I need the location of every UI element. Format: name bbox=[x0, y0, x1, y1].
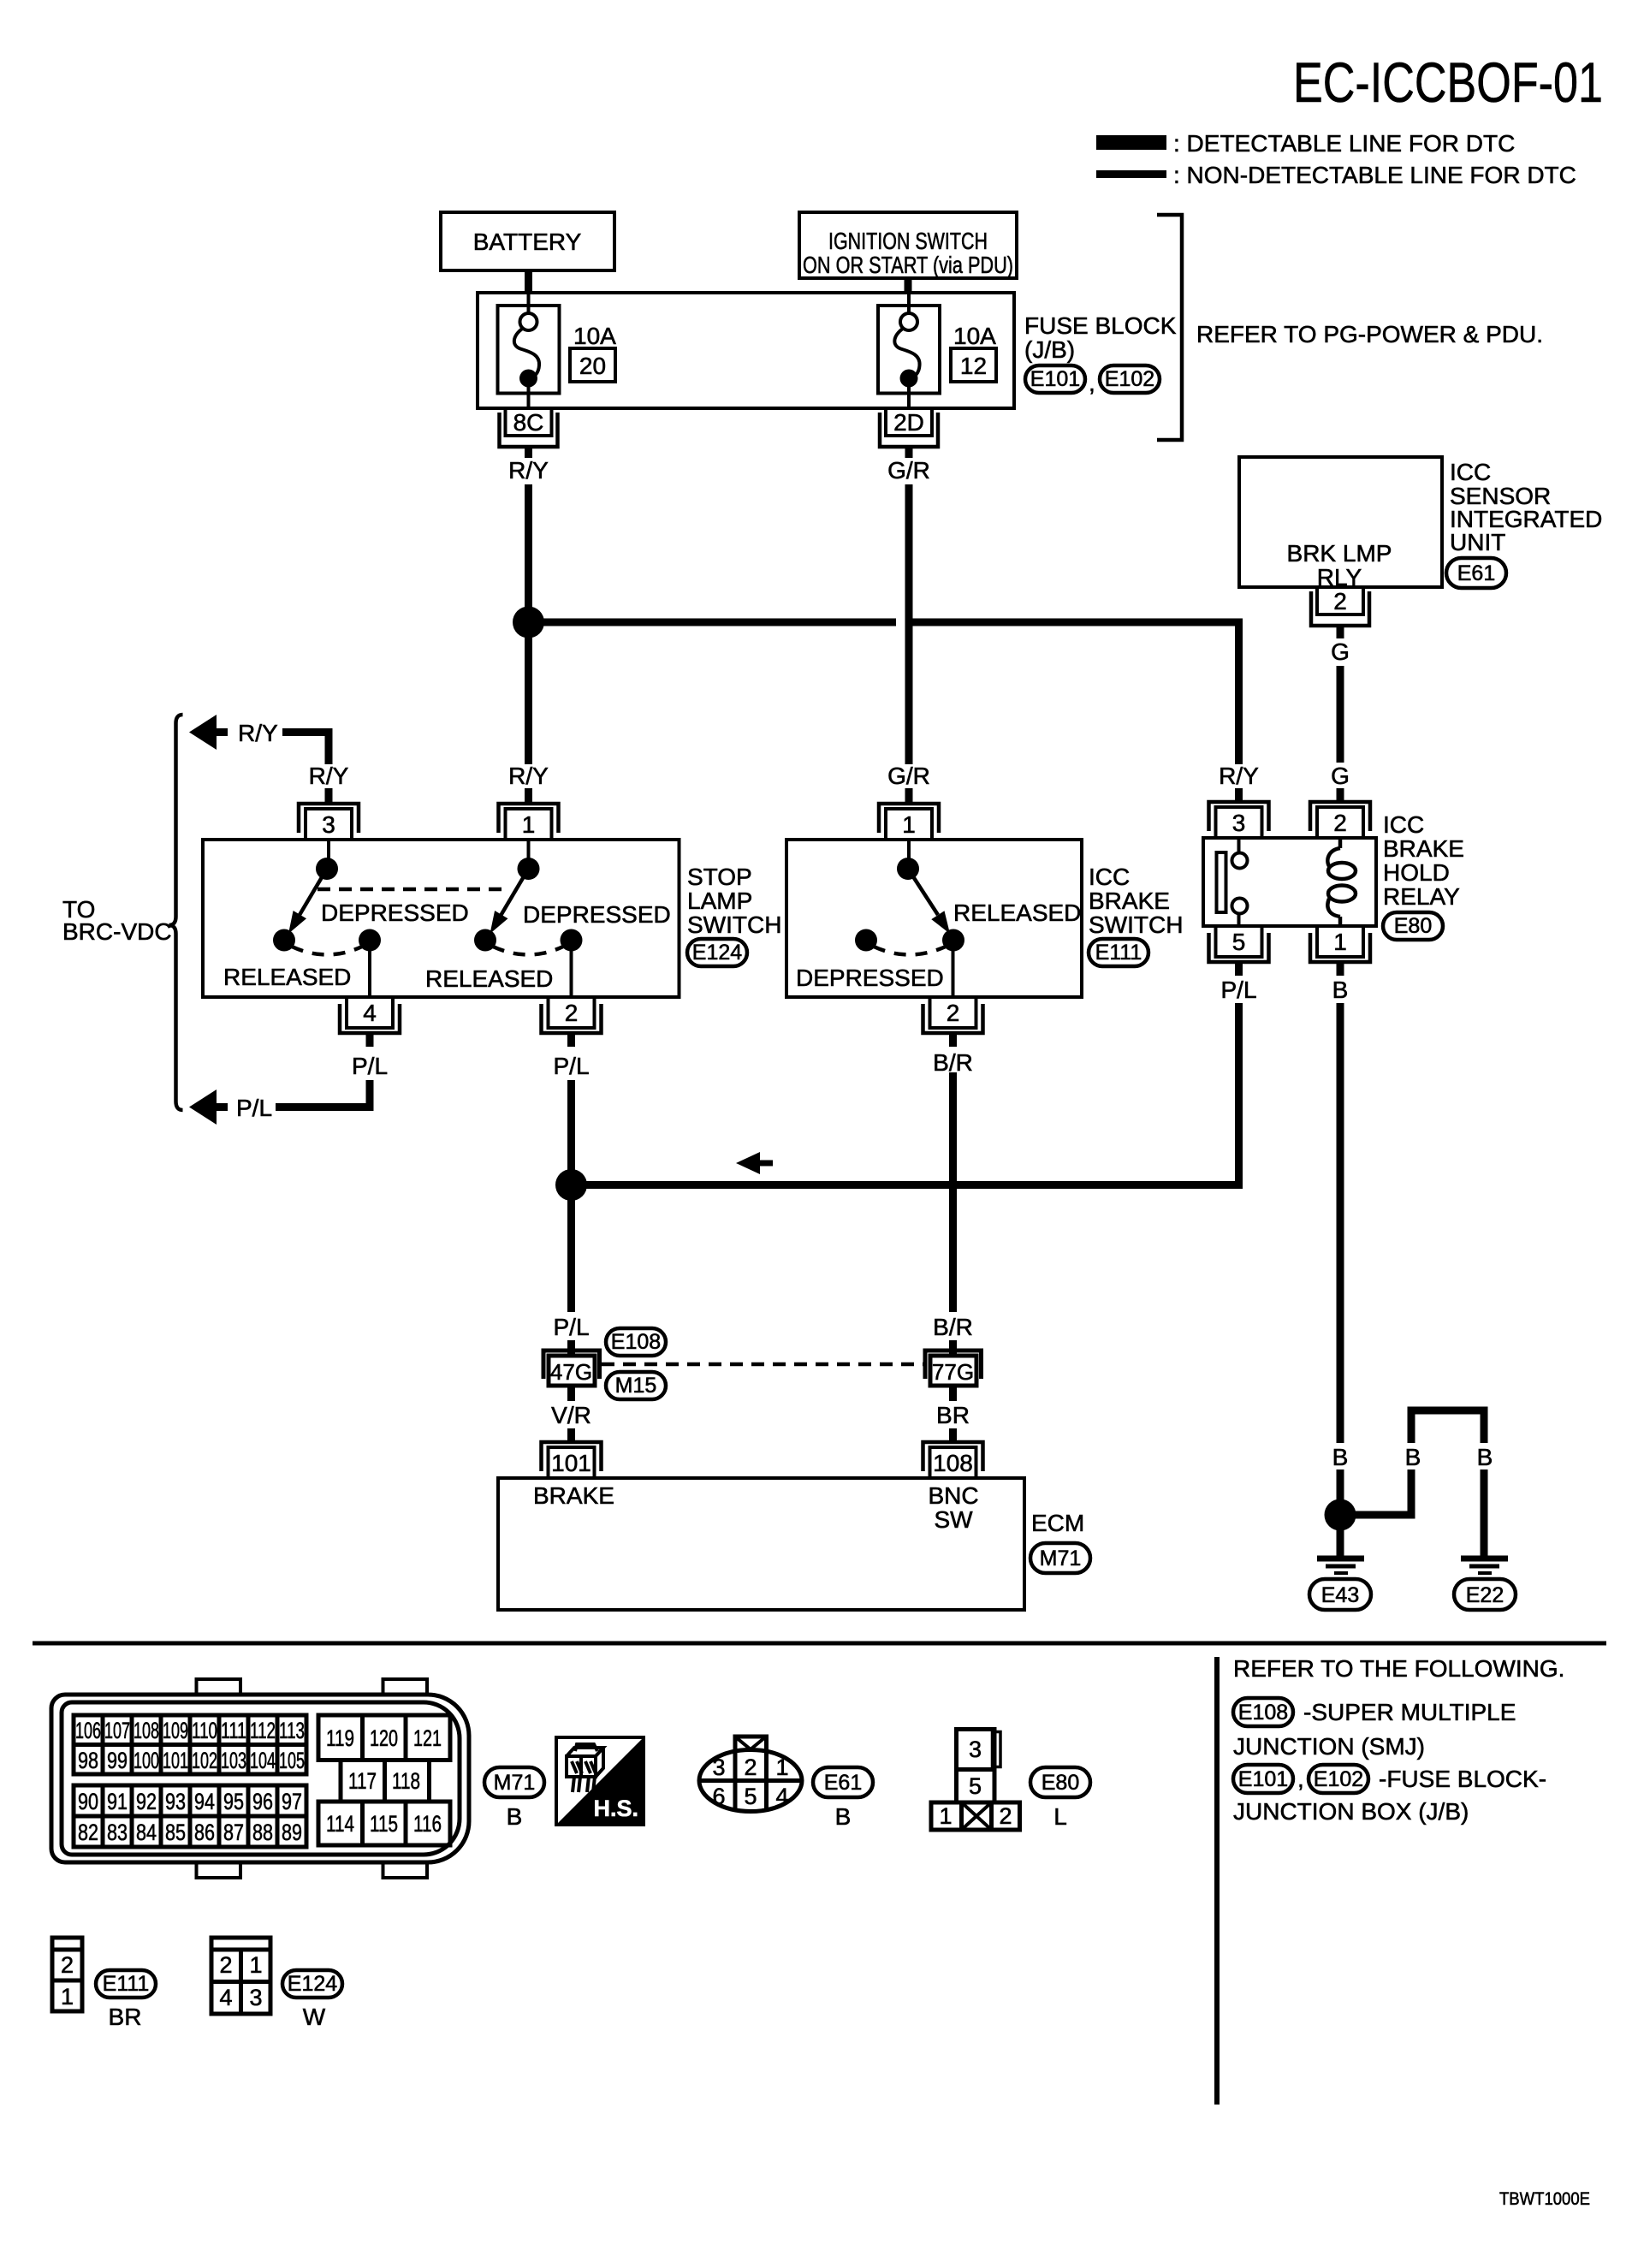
svg-text:3: 3 bbox=[1232, 810, 1246, 836]
svg-text:REFER TO PG-POWER & PDU.: REFER TO PG-POWER & PDU. bbox=[1196, 321, 1543, 347]
connector oval E124 (bottom) bbox=[282, 1970, 342, 1998]
connector 2 below BRK LMP RLY bbox=[1311, 587, 1369, 638]
svg-text:84: 84 bbox=[136, 1820, 157, 1845]
svg-text:B: B bbox=[1477, 1444, 1493, 1470]
wire from right released contact to conn 2 bbox=[570, 941, 573, 996]
connector oval E111 (bottom) bbox=[96, 1970, 156, 1998]
svg-text:82: 82 bbox=[78, 1820, 98, 1845]
svg-text:101: 101 bbox=[163, 1748, 188, 1773]
junction node (B splice) bbox=[1325, 1499, 1356, 1531]
svg-text:-FUSE BLOCK-: -FUSE BLOCK- bbox=[1379, 1766, 1546, 1792]
svg-text:10A: 10A bbox=[953, 323, 996, 349]
wire R/Y branch horizontal to relay column (gap at G/R crossing) bbox=[529, 619, 897, 626]
svg-text:E80: E80 bbox=[1394, 914, 1432, 938]
svg-text:G/R: G/R bbox=[887, 763, 930, 789]
legend detectable line sample bbox=[1096, 135, 1166, 150]
wire R/Y from 8C to junction bbox=[525, 484, 532, 622]
svg-text:102: 102 bbox=[192, 1748, 217, 1773]
arrow to BRC-VDC (R/Y) bbox=[189, 715, 329, 764]
svg-text:P/L: P/L bbox=[553, 1314, 589, 1340]
connector oval E108 bbox=[606, 1328, 666, 1356]
svg-text:108: 108 bbox=[933, 1450, 973, 1476]
svg-text:W: W bbox=[303, 2004, 326, 2030]
svg-text:BR: BR bbox=[936, 1402, 970, 1428]
svg-text:P/L: P/L bbox=[553, 1053, 589, 1079]
svg-text:77G: 77G bbox=[932, 1359, 974, 1385]
wire G/R from 2D down to ICC brake switch bbox=[905, 484, 913, 764]
left released contact bbox=[359, 929, 381, 952]
ICC released contact bbox=[942, 929, 964, 952]
connector 2 (relay) bbox=[1310, 802, 1370, 838]
svg-text:108: 108 bbox=[134, 1718, 159, 1743]
svg-text:2: 2 bbox=[999, 1803, 1012, 1829]
svg-text:109: 109 bbox=[163, 1718, 188, 1743]
connector 5 (relay) bbox=[1209, 926, 1269, 976]
svg-text:E111: E111 bbox=[1095, 941, 1142, 965]
svg-text:-SUPER MULTIPLE: -SUPER MULTIPLE bbox=[1303, 1699, 1516, 1725]
connector 2 (stop lamp switch) bbox=[542, 997, 602, 1047]
fuse 10A 12 (right) bbox=[878, 293, 996, 408]
svg-text:1: 1 bbox=[939, 1803, 952, 1829]
connector oval E80 (relay) bbox=[1383, 912, 1443, 940]
wire conn4 P/L down and left to arrow bbox=[276, 1080, 370, 1107]
svg-text:2: 2 bbox=[61, 1952, 74, 1978]
svg-text:12: 12 bbox=[960, 353, 987, 379]
wire B/R crossing down bbox=[949, 1072, 957, 1312]
right depressed contact bbox=[474, 929, 496, 952]
connector 3 (relay) bbox=[1209, 802, 1269, 838]
SMJ connector 77G bbox=[925, 1340, 982, 1401]
inner shell bbox=[62, 1702, 460, 1855]
oval connector E61 face bbox=[699, 1737, 802, 1812]
ICC dashed throw arc bbox=[874, 947, 946, 955]
svg-text:ICC: ICC bbox=[1089, 864, 1130, 890]
ECM connector M71 face bbox=[51, 1679, 469, 1878]
pin grid upper-left rows 106-113 / 98-105 bbox=[74, 1715, 306, 1774]
svg-text:R/Y: R/Y bbox=[508, 763, 549, 789]
outer shell bbox=[51, 1695, 469, 1862]
wire P/L from stop lamp conn2 down to junction bbox=[567, 1080, 575, 1185]
svg-text:3: 3 bbox=[249, 1985, 262, 2010]
svg-text:8C: 8C bbox=[513, 409, 544, 436]
svg-text:1: 1 bbox=[1333, 929, 1347, 955]
svg-text:ICC: ICC bbox=[1450, 459, 1491, 485]
bracket right of fuse block bbox=[1157, 215, 1182, 440]
pin grid lower-left rows 90-97 / 82-89 bbox=[74, 1785, 306, 1847]
connector oval M71 (bottom) bbox=[484, 1767, 544, 1797]
svg-text:P/L: P/L bbox=[352, 1053, 388, 1079]
svg-text:115: 115 bbox=[370, 1811, 398, 1837]
connector oval E101 bbox=[1025, 365, 1085, 393]
connector 8C bbox=[500, 408, 558, 458]
svg-text:STOP: STOP bbox=[687, 864, 752, 890]
svg-text:TBWT1000E: TBWT1000E bbox=[1499, 2189, 1590, 2209]
svg-text:E102: E102 bbox=[1314, 1767, 1363, 1791]
left switch pole wire bbox=[327, 841, 330, 863]
fuse block J/B box bbox=[478, 293, 1014, 408]
svg-text:117: 117 bbox=[348, 1768, 377, 1794]
svg-text:,: , bbox=[1089, 370, 1095, 396]
svg-text:DEPRESSED: DEPRESSED bbox=[321, 899, 469, 926]
svg-text:10A: 10A bbox=[573, 323, 616, 349]
svg-text:BRK LMP: BRK LMP bbox=[1287, 540, 1392, 567]
svg-text:BNC: BNC bbox=[928, 1482, 978, 1509]
svg-text:96: 96 bbox=[252, 1789, 273, 1814]
wire B from relay down bbox=[1337, 1003, 1344, 1443]
svg-text:BRAKE: BRAKE bbox=[533, 1482, 614, 1509]
ECM box bbox=[498, 1478, 1024, 1610]
svg-text:103: 103 bbox=[221, 1748, 246, 1773]
svg-text:2: 2 bbox=[744, 1754, 757, 1780]
svg-text:110: 110 bbox=[192, 1718, 217, 1743]
svg-text:B: B bbox=[835, 1803, 852, 1830]
svg-text:47G: 47G bbox=[550, 1359, 592, 1385]
svg-text:E80: E80 bbox=[1042, 1771, 1079, 1795]
right switch common contact bbox=[518, 858, 540, 880]
ICC depressed contact bbox=[855, 929, 877, 952]
left switch common contact bbox=[316, 858, 338, 880]
battery box bbox=[441, 212, 614, 270]
ICC brake hold relay box bbox=[1203, 838, 1376, 926]
svg-text:106: 106 bbox=[75, 1718, 101, 1743]
svg-text:3: 3 bbox=[969, 1737, 982, 1762]
svg-text:FUSE BLOCK: FUSE BLOCK bbox=[1024, 312, 1177, 339]
wire battery to fuse block bbox=[525, 270, 532, 293]
svg-text:E61: E61 bbox=[824, 1771, 862, 1795]
connector E124 face bbox=[211, 1938, 270, 2014]
svg-text:20: 20 bbox=[579, 353, 606, 379]
wire BR into ECM 108 bbox=[949, 1428, 957, 1442]
B link bus to E22 bbox=[1340, 1511, 1415, 1519]
svg-text:,: , bbox=[1297, 1766, 1304, 1792]
svg-text:M15: M15 bbox=[615, 1374, 657, 1398]
svg-text:2: 2 bbox=[1333, 810, 1347, 836]
wire from ICC released contact to conn 2 bbox=[952, 941, 955, 996]
connector 4 (stop lamp switch) bbox=[340, 997, 400, 1047]
svg-text:3: 3 bbox=[712, 1754, 725, 1780]
right released contact bbox=[561, 929, 583, 952]
right switch arm arrow (to depressed) bbox=[501, 869, 529, 915]
ICC switch arm arrow (to released) bbox=[908, 869, 938, 915]
connector oval M71 (ECM) bbox=[1030, 1543, 1090, 1573]
svg-text:89: 89 bbox=[282, 1820, 302, 1845]
svg-text:88: 88 bbox=[252, 1820, 273, 1845]
svg-text:95: 95 bbox=[223, 1789, 244, 1814]
svg-text:M71: M71 bbox=[494, 1771, 536, 1795]
svg-text:JUNCTION (SMJ): JUNCTION (SMJ) bbox=[1233, 1733, 1425, 1760]
brace TO BRC-VDC bbox=[169, 715, 183, 1110]
svg-text:1: 1 bbox=[775, 1754, 788, 1780]
svg-text:85: 85 bbox=[165, 1820, 186, 1845]
connector E111 face bbox=[52, 1938, 82, 2011]
svg-text:B: B bbox=[1332, 1444, 1349, 1470]
connector oval E102 (refer) bbox=[1309, 1765, 1368, 1793]
svg-text:105: 105 bbox=[279, 1748, 305, 1773]
right switch pole wire bbox=[527, 841, 531, 863]
svg-text:B: B bbox=[1332, 977, 1349, 1003]
svg-text:5: 5 bbox=[969, 1773, 982, 1799]
flow direction arrow bbox=[736, 1152, 773, 1174]
wire P/L from relay down to bus bbox=[575, 1003, 1239, 1185]
connector oval E80 (bottom) bbox=[1030, 1767, 1090, 1797]
svg-text:RELEASED: RELEASED bbox=[223, 964, 351, 990]
svg-text:H.S.: H.S. bbox=[593, 1796, 638, 1821]
svg-text:107: 107 bbox=[104, 1718, 130, 1743]
svg-text:112: 112 bbox=[250, 1718, 276, 1743]
separator line bbox=[33, 1642, 1606, 1646]
svg-text:2: 2 bbox=[219, 1952, 232, 1978]
svg-text:: NON-DETECTABLE LINE FOR DTC: : NON-DETECTABLE LINE FOR DTC bbox=[1173, 162, 1576, 188]
svg-text:93: 93 bbox=[165, 1789, 186, 1814]
refer column divider bbox=[1214, 1657, 1220, 2105]
svg-text:R/Y: R/Y bbox=[238, 720, 278, 746]
relay contact pins bbox=[1237, 840, 1241, 853]
ICC switch pole wire bbox=[907, 841, 911, 863]
svg-text:6: 6 bbox=[712, 1784, 725, 1809]
ICC switch common contact bbox=[897, 858, 919, 880]
relay coil bbox=[1327, 840, 1356, 926]
svg-text:IGNITION SWITCH: IGNITION SWITCH bbox=[828, 228, 988, 254]
svg-text:HOLD: HOLD bbox=[1383, 859, 1450, 886]
svg-text:94: 94 bbox=[194, 1789, 215, 1814]
svg-text:2: 2 bbox=[565, 1000, 579, 1026]
svg-text:121: 121 bbox=[413, 1725, 442, 1751]
connector 108 (ECM) bbox=[923, 1442, 983, 1478]
wire from left released contact to conn 4 bbox=[368, 941, 371, 996]
svg-text:R/Y: R/Y bbox=[1219, 763, 1259, 789]
svg-text:P/L: P/L bbox=[1220, 977, 1256, 1003]
wire ignition to fuse block bbox=[905, 278, 912, 293]
connector oval E22 bbox=[1454, 1579, 1516, 1610]
connector E80 face bbox=[931, 1730, 1020, 1831]
connector oval E102 bbox=[1100, 365, 1160, 393]
svg-text:BRC-VDC: BRC-VDC bbox=[62, 918, 172, 945]
svg-text:R/Y: R/Y bbox=[508, 457, 549, 484]
svg-text:116: 116 bbox=[413, 1811, 442, 1837]
svg-text:R/Y: R/Y bbox=[309, 763, 349, 789]
svg-text:83: 83 bbox=[107, 1820, 128, 1845]
svg-text:SWITCH: SWITCH bbox=[1089, 911, 1183, 938]
connector oval E101 (refer) bbox=[1233, 1765, 1293, 1793]
right dashed throw arc bbox=[493, 947, 563, 955]
junction node (R/Y splice) bbox=[513, 607, 544, 638]
svg-text:4: 4 bbox=[363, 1000, 377, 1026]
svg-text:E101: E101 bbox=[1030, 367, 1080, 391]
svg-text:E108: E108 bbox=[1238, 1701, 1288, 1725]
svg-text:E124: E124 bbox=[288, 1972, 337, 1996]
svg-text:E61: E61 bbox=[1457, 561, 1495, 585]
ground symbol E43 bbox=[1317, 1559, 1364, 1573]
svg-text:ON OR START (via PDU): ON OR START (via PDU) bbox=[803, 252, 1013, 278]
svg-text:101: 101 bbox=[551, 1450, 591, 1476]
svg-text:3: 3 bbox=[322, 811, 335, 838]
H.S. view icon bbox=[556, 1737, 644, 1825]
stop lamp switch box bbox=[203, 840, 680, 997]
svg-text:2D: 2D bbox=[893, 409, 924, 436]
svg-text:B/R: B/R bbox=[933, 1049, 973, 1076]
wire G down to relay bbox=[1337, 666, 1344, 763]
svg-text:G: G bbox=[1331, 638, 1350, 665]
connector oval E61 (bottom) bbox=[813, 1767, 873, 1797]
svg-text:114: 114 bbox=[326, 1811, 354, 1837]
svg-text:B: B bbox=[507, 1803, 523, 1830]
wire stub into conn 3 bbox=[325, 788, 333, 802]
svg-text:98: 98 bbox=[78, 1748, 98, 1773]
svg-text:DEPRESSED: DEPRESSED bbox=[523, 901, 671, 928]
connector oval E124 (switch) bbox=[687, 939, 747, 966]
mechanical link dashed line bbox=[318, 888, 507, 892]
svg-text:E43: E43 bbox=[1321, 1583, 1359, 1607]
wire V/R into ECM 101 bbox=[567, 1428, 575, 1442]
connector 2 (ICC brake switch) bbox=[923, 997, 983, 1047]
svg-text:E108: E108 bbox=[611, 1330, 661, 1354]
svg-text:1: 1 bbox=[902, 811, 916, 838]
svg-text:2: 2 bbox=[947, 1000, 960, 1026]
svg-text:91: 91 bbox=[107, 1789, 128, 1814]
left depressed contact bbox=[273, 929, 295, 952]
svg-text:99: 99 bbox=[107, 1748, 128, 1773]
svg-text:JUNCTION BOX (J/B): JUNCTION BOX (J/B) bbox=[1233, 1798, 1469, 1825]
svg-text:119: 119 bbox=[326, 1725, 354, 1751]
svg-text:BRAKE: BRAKE bbox=[1089, 888, 1170, 914]
shell lugs bbox=[197, 1679, 241, 1695]
svg-text:90: 90 bbox=[78, 1789, 98, 1814]
svg-text:B: B bbox=[1405, 1444, 1421, 1470]
svg-text:5: 5 bbox=[744, 1784, 757, 1809]
connector 3 (stop lamp switch) bbox=[299, 804, 359, 840]
ICC brake switch box bbox=[786, 840, 1082, 997]
connector 1 (stop lamp switch) bbox=[499, 804, 559, 840]
svg-text:LAMP: LAMP bbox=[687, 888, 752, 914]
svg-text:RELEASED: RELEASED bbox=[953, 899, 1081, 926]
connector oval E61 (unit) bbox=[1446, 558, 1506, 588]
svg-text:100: 100 bbox=[134, 1748, 159, 1773]
svg-text:P/L: P/L bbox=[236, 1095, 272, 1121]
svg-text:BATTERY: BATTERY bbox=[473, 229, 582, 255]
legend non-detectable line sample bbox=[1096, 170, 1166, 178]
svg-text:DEPRESSED: DEPRESSED bbox=[796, 965, 944, 991]
svg-text:86: 86 bbox=[194, 1820, 215, 1845]
ground symbol E22 bbox=[1461, 1559, 1508, 1573]
left dashed throw arc bbox=[292, 947, 362, 955]
svg-text:4: 4 bbox=[775, 1784, 788, 1809]
svg-text:V/R: V/R bbox=[551, 1402, 591, 1428]
svg-text:92: 92 bbox=[136, 1789, 157, 1814]
connector oval E108 (refer) bbox=[1233, 1698, 1293, 1726]
junction node (P/L splice) bbox=[555, 1169, 587, 1201]
svg-text:4: 4 bbox=[219, 1985, 232, 2010]
svg-text:E22: E22 bbox=[1466, 1583, 1504, 1607]
svg-text:EC-ICCBOF-01: EC-ICCBOF-01 bbox=[1293, 50, 1603, 114]
svg-text:RELEASED: RELEASED bbox=[425, 965, 553, 992]
svg-text:E102: E102 bbox=[1105, 367, 1154, 391]
svg-text:104: 104 bbox=[250, 1748, 276, 1773]
connector 2D bbox=[880, 408, 938, 458]
ICC sensor integrated unit box bbox=[1239, 457, 1442, 587]
svg-text:ECM: ECM bbox=[1031, 1510, 1084, 1536]
svg-text:ICC: ICC bbox=[1383, 811, 1424, 838]
svg-text:1: 1 bbox=[522, 811, 536, 838]
left switch arm arrow (to depressed) bbox=[300, 869, 327, 915]
svg-text:1: 1 bbox=[61, 1984, 74, 2010]
connector 1 (relay) bbox=[1310, 926, 1370, 976]
svg-text:87: 87 bbox=[223, 1820, 244, 1845]
svg-text:120: 120 bbox=[370, 1725, 398, 1751]
fuse 10A 20 (left) bbox=[498, 293, 617, 408]
SMJ connector 47G bbox=[543, 1340, 600, 1401]
svg-text:REFER TO THE FOLLOWING.: REFER TO THE FOLLOWING. bbox=[1233, 1655, 1564, 1682]
svg-text:5: 5 bbox=[1232, 929, 1246, 955]
svg-text:1: 1 bbox=[249, 1952, 262, 1978]
pin grid right rows 119-121 / 117-118 / 114-116 bbox=[318, 1715, 450, 1845]
svg-text:UNIT: UNIT bbox=[1450, 529, 1505, 555]
svg-text:113: 113 bbox=[279, 1718, 305, 1743]
svg-text:B/R: B/R bbox=[933, 1314, 973, 1340]
connector oval E43 bbox=[1309, 1579, 1371, 1610]
svg-text:G/R: G/R bbox=[887, 457, 930, 484]
svg-text:SW: SW bbox=[934, 1506, 973, 1533]
svg-text:(J/B): (J/B) bbox=[1024, 336, 1075, 363]
wire to ground E43 bbox=[1337, 1515, 1344, 1556]
wire P/L from junction down to 47G bbox=[567, 1185, 575, 1313]
connector oval M15 bbox=[606, 1372, 666, 1399]
svg-text:M71: M71 bbox=[1040, 1547, 1082, 1570]
svg-text:118: 118 bbox=[392, 1768, 420, 1794]
svg-text:E101: E101 bbox=[1238, 1767, 1288, 1791]
relay contact bar bbox=[1217, 852, 1226, 912]
svg-text:111: 111 bbox=[221, 1718, 246, 1743]
connector 101 (ECM) bbox=[542, 1442, 602, 1478]
SMJ dashed link 47G-77G bbox=[602, 1363, 925, 1367]
svg-text:BRAKE: BRAKE bbox=[1383, 835, 1464, 862]
svg-text:97: 97 bbox=[282, 1789, 302, 1814]
svg-text:SWITCH: SWITCH bbox=[687, 911, 781, 938]
svg-text:E124: E124 bbox=[692, 941, 742, 965]
connector 1 (ICC brake switch) bbox=[879, 804, 939, 840]
svg-text:2: 2 bbox=[1333, 588, 1347, 614]
connector oval E111 (switch) bbox=[1089, 939, 1148, 966]
svg-text:G: G bbox=[1331, 763, 1350, 789]
svg-text:RELAY: RELAY bbox=[1383, 883, 1460, 910]
svg-text:: DETECTABLE LINE FOR DTC: : DETECTABLE LINE FOR DTC bbox=[1173, 130, 1515, 157]
ignition switch box bbox=[799, 212, 1017, 278]
arrow to BRC-VDC (P/L) bbox=[189, 1089, 272, 1125]
svg-text:L: L bbox=[1053, 1803, 1067, 1830]
svg-text:BR: BR bbox=[109, 2004, 142, 2030]
wire R/Y down from junction bbox=[525, 622, 532, 764]
svg-text:E111: E111 bbox=[103, 1972, 150, 1996]
